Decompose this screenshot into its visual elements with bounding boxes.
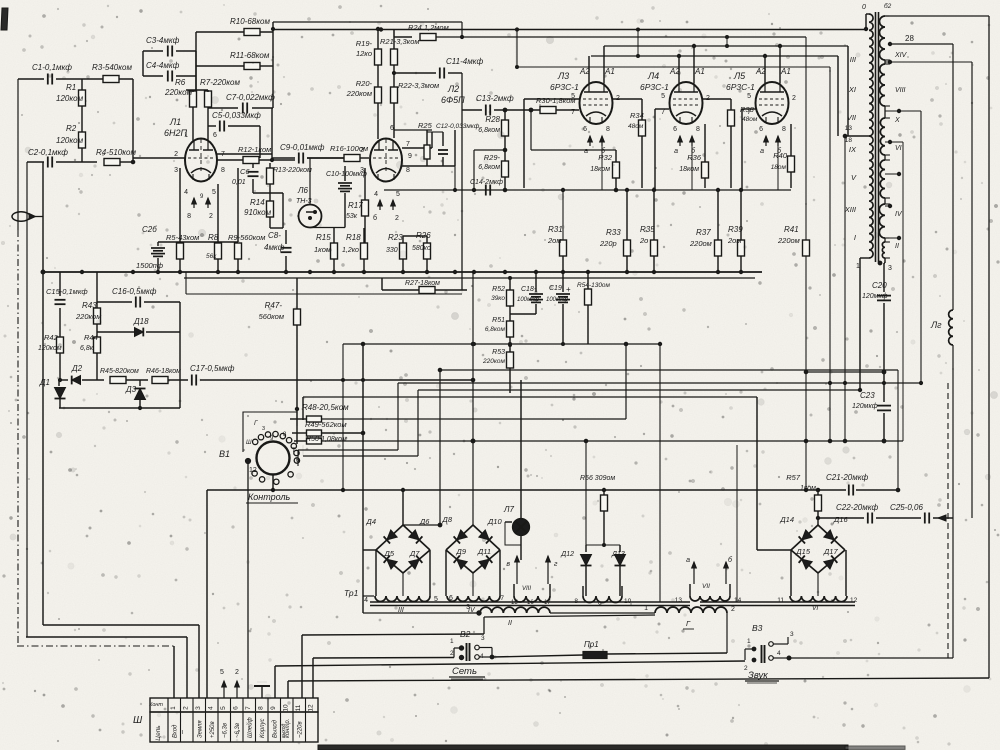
svg-text:1500пф: 1500пф [136,261,164,270]
svg-text:Ш: Ш [246,440,252,446]
wire L3 grid leak loop [530,110,532,150]
svg-text:5: 5 [212,189,216,196]
svg-text:IX: IX [849,145,857,154]
switch B3 [744,649,746,660]
wire x207 to terminal 4 [206,490,208,698]
svg-text:R41: R41 [784,225,799,234]
rotary switch B1 [257,442,290,475]
svg-text:9: 9 [270,706,277,710]
svg-text:9: 9 [408,153,412,160]
terminal 11 riser [301,635,303,698]
svg-text:1: 1 [184,132,188,139]
svg-text:R47-: R47- [265,301,283,310]
svg-text:IV: IV [895,211,903,218]
svg-text:R30-1,8ком: R30-1,8ком [536,96,576,105]
resistor R27 18kom [382,289,419,291]
capacitor C3 4mkf [143,50,163,52]
resistor R1 120kom [81,79,83,162]
svg-text:R9-560ком: R9-560ком [228,233,265,242]
svg-text:Л5: Л5 [733,71,746,81]
svg-text:II: II [895,243,899,250]
tube Л4 anode risers [678,56,680,83]
svg-text:R25: R25 [418,121,433,130]
svg-text:VI: VI [895,145,902,152]
svg-text:R20-: R20- [356,79,373,88]
svg-text:2: 2 [360,147,364,154]
bridge 1 diodes D4-D7 [376,525,403,550]
resistor R45 820kom [110,377,126,384]
svg-text:1: 1 [856,263,860,270]
wire L1 plate to coupling [217,153,272,155]
svg-text:Тр1: Тр1 [344,588,359,598]
svg-text:3: 3 [262,426,265,432]
svg-text:R44: R44 [84,333,98,342]
svg-text:С6: С6 [240,167,250,176]
wire R21-R22 junction to C11 [392,71,395,74]
capacitor C20 120mkf [883,263,885,292]
terminal 5 6 arrows [223,681,225,698]
svg-text:С18-: С18- [521,286,537,293]
tube Л4 cathode arrows [679,136,681,146]
terminal 12 riser [312,658,314,698]
resistor R56 309om [603,490,605,495]
diodes D12 D13 [586,544,620,546]
svg-text:R3-540ком: R3-540ком [92,63,132,72]
svg-text:Г: Г [254,420,258,427]
svg-text:VII: VII [702,583,710,590]
svg-text:220ком: 220ком [482,358,506,365]
svg-text:R28: R28 [485,115,500,124]
resistor R33 220om [626,190,628,240]
wire x343 vertical [342,344,344,490]
capacitor C11 4mkf [439,68,441,79]
transformer secondary windings right [880,16,886,60]
svg-text:6,8ком: 6,8ком [485,326,506,333]
svg-text:R40: R40 [773,151,788,160]
wire input verticals left border [17,79,19,230]
wire x455 vertical [454,130,456,166]
wire riser x418 [417,390,419,456]
svg-text:18ком: 18ком [590,166,610,173]
wire C3-C4 left [142,51,144,76]
wire winding links [504,591,506,593]
svg-text:Сеть: Сеть [452,666,477,677]
capacitor C17 0.5mkf [191,375,193,386]
svg-text:8: 8 [187,213,191,220]
wire y490 long [207,489,818,491]
resistor R51 6.8kom [509,306,511,314]
wire R49 to x363 [361,431,365,435]
svg-text:С15-0,1мкф: С15-0,1мкф [46,287,88,296]
transformer primary top lead [866,13,869,15]
resistor R43 220kom [96,272,98,308]
resistor R37 220om [717,190,719,240]
svg-text:2: 2 [792,95,796,102]
wire bridge3 left feed [756,397,758,550]
wire x806 drop [805,37,807,240]
svg-text:4: 4 [364,597,368,604]
tube Л5 anode risers [764,56,766,83]
svg-text:С22-20мкф: С22-20мкф [836,503,879,512]
Tr1 winding IV under bridge2 [447,596,500,601]
resistor R5 43kom [177,243,184,259]
Tr1 winding VI under bridge3 [790,596,847,602]
svg-text:С25-0,06: С25-0,06 [890,503,923,512]
resistor R12 1kom [243,157,259,164]
svg-text:4: 4 [208,706,215,710]
svg-text:1: 1 [170,706,177,710]
svg-text:R18: R18 [346,233,361,242]
svg-text:Д11: Д11 [477,547,491,556]
svg-text:8: 8 [782,126,786,133]
svg-text:R45-820ком: R45-820ком [100,368,139,375]
svg-text:53к: 53к [346,213,358,220]
svg-text:R57: R57 [786,473,801,482]
svg-text:Д10: Д10 [487,517,502,526]
svg-text:Л7: Л7 [503,505,514,514]
svg-text:1: 1 [747,638,751,645]
diode D3 [126,379,148,381]
svg-text:С23: С23 [860,391,875,400]
svg-text:R56 309ом: R56 309ом [580,475,615,482]
svg-text:5: 5 [396,191,400,198]
svg-text:4: 4 [184,189,188,196]
svg-text:~6,3в: ~6,3в [223,723,229,738]
wire anode bus y56 [591,55,838,57]
svg-text:13: 13 [845,125,853,132]
Tr1 primary winding II [363,612,480,614]
output tube Л4 6P3S-1 [670,82,703,124]
svg-text:3: 3 [466,604,470,611]
svg-text:Д7: Д7 [409,549,420,558]
svg-text:R35: R35 [640,225,655,234]
svg-text:С3-4мкф: С3-4мкф [146,36,180,45]
resistor R21 3.3kom [393,29,395,49]
wire output tube top feeds [516,30,518,68]
capacitor C19 100mkf [562,272,564,292]
resistor R10 68kom [244,29,260,36]
svg-text:1: 1 [450,638,454,645]
svg-text:С16-0,5мкф: С16-0,5мкф [112,287,157,296]
wire right vertical x921 [920,111,922,383]
svg-text:2ом: 2ом [547,236,561,245]
resistor R35 2om [653,190,655,240]
Tr1 winding VIII heater [514,596,550,602]
svg-text:9: 9 [200,194,204,200]
resistor R57 1kom [817,490,819,495]
svg-text:Ш: Ш [133,715,143,726]
resistor R53 220kom [509,344,512,347]
svg-text:Конт: Конт [149,702,163,708]
svg-text:48ом: 48ом [742,116,758,123]
wire L4 cathode drop [691,136,693,190]
svg-text:С11-4мкф: С11-4мкф [446,57,483,66]
resistor R34 48om [641,99,643,120]
resistor R9 560kom [235,243,242,259]
diode D1 [58,380,60,386]
capacitor C14 2mkf [485,185,487,196]
svg-text:В1: В1 [219,449,230,459]
svg-text:R51: R51 [492,317,505,324]
svg-text:220р: 220р [599,239,617,248]
capacitor C22 20mkf [818,517,864,519]
resistor R7 220kom [205,91,212,107]
switch B1 contact box [243,412,297,452]
tube L2 6F5P [370,139,402,182]
diode D2 [60,379,68,381]
svg-text:R48-20,5ком: R48-20,5ком [302,403,349,412]
wire B1 contact lines lower [298,449,398,451]
svg-text:R14: R14 [250,198,265,207]
capacitor C25 0.06 [924,513,926,524]
wire grid feed L3 from splitter [515,107,517,109]
capacitor C5 0.033mkf [208,125,216,127]
svg-text:R19-: R19- [356,39,373,48]
svg-text:6,8к: 6,8к [80,345,94,352]
Tr1 winding III under bridge1 [375,596,430,602]
svg-text:11: 11 [777,597,784,604]
svg-text:С14-2мкф: С14-2мкф [470,179,503,186]
svg-text:2: 2 [450,650,454,657]
svg-text:С2-0,1мкф: С2-0,1мкф [28,148,68,157]
resistor R19 12kom [377,29,379,49]
resistor R4 510kom [104,159,120,166]
switch B2 [453,648,455,658]
svg-text:7: 7 [406,141,410,148]
wire pin12 to B2 [313,657,454,660]
wire B1 wiper to terminal 7 [247,464,249,698]
svg-text:28: 28 [905,34,914,43]
transformer secondary top lead [885,15,989,17]
svg-text:б: б [373,214,377,222]
svg-text:R49-562ком: R49-562ком [305,420,347,429]
wire x903 lower [902,383,904,441]
svg-text:2: 2 [209,213,213,220]
svg-text:4мкф: 4мкф [264,243,285,252]
tube L1 6N2P [185,139,217,182]
svg-text:R13-220ком: R13-220ком [273,167,312,174]
output tube Л3 6P3S-1 [580,82,613,124]
ground symbol at terminal 8 [261,686,263,698]
resistor R41 220om [803,240,810,256]
resistor R30 1.8kom [540,107,556,114]
svg-text:XI: XI [848,85,856,94]
svg-text:II: II [180,730,184,736]
wire y370 line [440,369,898,371]
svg-text:120мкф: 120мкф [852,403,878,410]
svg-text:220ком: 220ком [75,312,101,321]
wire x180 vertical [179,302,181,408]
wire bridge1 bottom [402,573,404,596]
svg-text:4: 4 [374,191,378,198]
scan speckle noise [637,19,641,23]
svg-text:С12-0,033мкф: С12-0,033мкф [436,123,480,130]
resistor R42 120kom [57,337,64,353]
svg-text:7: 7 [245,706,252,710]
svg-text:Земля: Земля [198,720,204,738]
main ground bus [42,271,762,273]
wire B3 to Lr [789,657,953,659]
tube L1 heater arrows [193,198,195,208]
svg-text:R21-3,3ком: R21-3,3ком [380,37,420,46]
svg-text:13: 13 [675,597,683,604]
wire stair lines right [398,382,921,384]
svg-text:С21-20мкф: С21-20мкф [826,473,869,482]
capacitor C4 4mkf [143,75,163,77]
Tr1 core [370,601,690,603]
svg-text:2ом: 2ом [727,236,741,245]
svg-text:2: 2 [731,606,735,613]
svg-text:VIII: VIII [895,87,906,94]
svg-text:6: 6 [213,132,217,139]
svg-text:R11-68ком: R11-68ком [230,51,270,60]
resistor R49 562kom [292,432,306,434]
capacitor C7 0.022mkf [208,107,238,109]
input connector socket [12,212,30,222]
svg-text:7: 7 [500,595,504,602]
svg-text:2о: 2о [639,236,648,245]
wire C3 right vertical [195,51,197,90]
capacitor C2 0.1mkf [27,161,44,163]
wire L7 side loop [505,522,521,545]
svg-text:С9-0,01мкф: С9-0,01мкф [280,143,325,152]
svg-text:220ком: 220ком [164,88,193,97]
bottom scan streak [318,745,848,750]
resistor R2 120kom [79,132,86,148]
wire right vertical x972 [971,62,973,518]
svg-text:R6: R6 [175,78,186,87]
wire bottom feeds x455 x583 x660 x737 [625,344,627,419]
svg-text:5: 5 [220,669,224,676]
svg-text:Цепь: Цепь [155,725,162,741]
svg-text:Вход: Вход [173,724,179,738]
svg-text:Д18: Д18 [133,317,149,326]
svg-text:Д4: Д4 [366,517,376,526]
svg-text:4: 4 [777,650,781,657]
svg-text:R15: R15 [316,233,331,242]
svg-text:2: 2 [183,706,190,710]
resistor R40 18kom [790,124,792,156]
svg-text:3: 3 [481,635,485,642]
svg-text:Д2: Д2 [71,364,83,373]
svg-text:2: 2 [174,151,178,158]
capacitor C23 120mkf [882,381,885,384]
svg-text:6: 6 [673,126,677,133]
lamp L7 [513,519,530,536]
wire left L-bends [43,624,199,626]
svg-text:VII: VII [847,113,856,122]
wire L4 grid link [702,98,731,100]
capacitor C6 0.01 [252,163,254,168]
wire y314 C18 link [510,313,536,315]
svg-text:100мкф: 100мкф [546,297,568,303]
svg-text:3: 3 [888,265,892,272]
svg-text:Д17: Д17 [823,547,838,556]
svg-text:3: 3 [174,167,178,174]
svg-text:R52: R52 [492,286,505,293]
svg-text:Д15: Д15 [795,547,810,556]
svg-text:а: а [686,557,690,564]
wire pin11 to primary [302,634,484,635]
svg-text:330: 330 [386,247,398,254]
wire pin10 long [288,678,989,681]
svg-text:R39: R39 [728,225,743,234]
svg-text:6Р3С-1: 6Р3С-1 [550,82,579,92]
output transformer Tr2 core [875,12,877,262]
svg-text:Д14: Д14 [779,515,794,524]
wire terminal risers [173,646,175,698]
svg-text:14: 14 [734,597,742,604]
svg-text:10: 10 [283,704,290,712]
Tr1 winding VII [690,596,730,601]
left corner scan mark [1,8,8,30]
svg-text:220ом: 220ом [689,239,712,248]
svg-text:R53: R53 [492,349,505,356]
resistor R38 48om [730,99,732,110]
svg-text:48ом: 48ом [628,123,644,130]
wire second top bus y37 [393,30,395,37]
svg-text:6,8ком: 6,8ком [478,164,500,171]
resistor R44 6.8kom [94,337,101,353]
resistor R26 580kom [424,243,431,259]
second bus y282 [184,277,755,279]
resistor R8 56kom [215,243,222,259]
svg-text:Г: Г [686,619,691,628]
wire pin9 to B3 [275,661,745,666]
wire L5 grid leak [742,108,756,110]
svg-text:V: V [851,173,857,182]
wire phase splitter to R27 [461,73,463,290]
svg-text:R17: R17 [348,201,363,210]
svg-text:Д1: Д1 [39,378,50,387]
svg-text:Д8: Д8 [442,515,453,524]
svg-text:R42: R42 [44,333,59,342]
svg-text:Д3: Д3 [125,385,137,394]
svg-text:R22-3,3мом: R22-3,3мом [398,81,439,90]
capacitor C26 1500pf [157,242,159,246]
resistor R18 1.2kom [361,243,368,259]
svg-text:а: а [674,148,678,155]
svg-text:3: 3 [790,631,794,638]
wire L5 cathode drop [777,136,779,190]
svg-text:Контроль: Контроль [248,492,291,502]
svg-text:R2: R2 [66,124,77,133]
svg-text:220ом: 220ом [777,236,800,245]
svg-text:120ком: 120ком [56,94,84,103]
bridge 1 verticals [402,490,404,525]
svg-text:Л3: Л3 [557,71,569,81]
resistor R23 330om [400,243,407,259]
svg-text:б2: б2 [884,2,892,10]
svg-text:I: I [180,718,182,724]
svg-text:XIII: XIII [844,205,856,214]
capacitor C15 0.1mkf [59,272,61,296]
svg-text:С5-0,033мкф: С5-0,033мкф [212,111,261,120]
wire bus y383 [843,381,846,384]
svg-text:18: 18 [845,137,853,144]
resistor R46 18kom [152,377,168,384]
tube Л5 cathode arrows [765,136,767,146]
svg-text:R7-220ком: R7-220ком [200,78,240,87]
tube Л3 cathode arrows [589,136,591,146]
svg-text:100мкф: 100мкф [517,297,539,303]
svg-text:7: 7 [661,109,665,116]
svg-text:в: в [506,561,510,568]
wire L4 grid leak [655,108,669,110]
svg-text:Выход: Выход [273,719,279,738]
svg-text:а: а [760,148,764,155]
svg-text:8: 8 [283,432,287,438]
